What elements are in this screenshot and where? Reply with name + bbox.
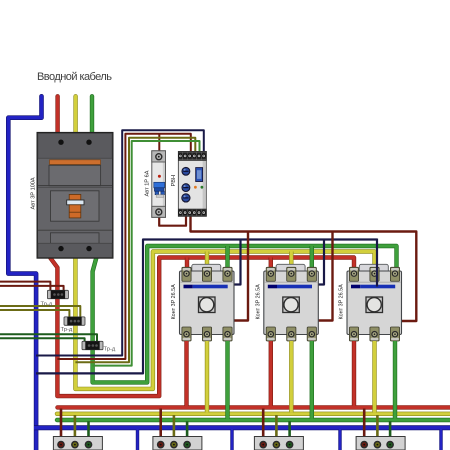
wire N blue drop to outlet row	[136, 430, 139, 450]
svg-text:РВН: РВН	[171, 175, 177, 187]
svg-text:Авт 1Р 6А: Авт 1Р 6А	[144, 170, 150, 196]
svg-text:Тр-д: Тр-д	[61, 327, 73, 333]
wire K1 outputs red/yellow/green to buses	[184, 341, 188, 406]
relay U1 РВН (voltage monitor)	[178, 152, 206, 217]
wire navy neutral bus over contactors	[36, 240, 377, 374]
wire CT2 secondary pair (olive) from left edge	[0, 306, 80, 317]
wire navy drop to K2 coil A2	[318, 240, 324, 285]
wire L2 yellow stub to K2 terminal 2	[289, 252, 293, 274]
wire L2 yellow incoming column through QF1 and CT2	[73, 96, 77, 133]
svg-text:Конт 3Р 26.5А: Конт 3Р 26.5А	[171, 284, 177, 320]
wire L1 red incoming column through QF1 and CT1	[55, 96, 59, 133]
contactor K2 Конт 3Р 26.5А	[264, 264, 319, 341]
svg-text:Конт 3Р 26.5А: Конт 3Р 26.5А	[255, 284, 261, 320]
wire feeders to outlet device 2	[159, 409, 162, 442]
wire feeders to outlet device 3	[262, 409, 265, 442]
current transformer Тр-д 1	[47, 290, 68, 298]
wire navy drop to K1 coil A2	[234, 240, 241, 285]
svg-text:Тр-д: Тр-д	[104, 347, 116, 353]
svg-text:Тр-д: Тр-д	[41, 302, 53, 308]
wire N blue incoming: cap top, down, west, down left edge, east, down thick to bottom	[8, 96, 41, 450]
circuit breaker SF1 Авт 1Р 6А	[152, 151, 166, 218]
contactor K3 Конт 3Р 26.5А	[347, 264, 402, 341]
wire L3 green stub to K2 terminal 3	[310, 246, 314, 274]
wire CT1 secondary pair (dark red) from left edge	[0, 282, 50, 291]
svg-text:Авт 3Р 100А: Авт 3Р 100А	[31, 177, 37, 209]
wire K3 outputs red/yellow/green to buses	[352, 341, 356, 406]
wire dark-red branch to SF1 top terminal	[158, 134, 160, 152]
wire K2 outputs red/yellow/green to buses	[269, 341, 273, 406]
wire L3 green stub to K1 terminal 3	[225, 246, 229, 274]
current transformer Тр-д 2	[64, 317, 85, 325]
wire feeders to outlet device 4	[363, 409, 366, 442]
terminal block device 2	[153, 437, 202, 450]
terminal block device 3	[254, 437, 303, 450]
wire dark-red link SF1 bottom to relay bottom terminal 2	[159, 217, 186, 226]
wire L1 red stub to K2 terminal 1	[269, 258, 273, 274]
wire N blue drop to outlet row	[338, 430, 341, 450]
terminal block device 1	[53, 437, 102, 450]
wire CT3 secondary pair (dark green) from left edge	[0, 334, 97, 341]
wire L2 yellow stub to K1 terminal 2	[205, 252, 209, 274]
terminal block device 4	[356, 437, 405, 450]
bus L3 green distribution	[57, 418, 450, 422]
wire dark-red drop to K2 coil A1	[318, 232, 332, 321]
wire L3 green incoming column through QF1 and CT3	[90, 96, 94, 133]
svg-text:Конт 3Р 26.5А: Конт 3Р 26.5А	[339, 284, 345, 320]
bus L1 red distribution	[58, 405, 450, 409]
wire feeders to outlet device 1	[60, 409, 63, 442]
wire dark-red phase A sense: red column to relay terminal 3	[57, 134, 190, 359]
bus L2 yellow distribution	[57, 412, 450, 416]
wire green phase C sense: green column to relay terminal 5	[93, 141, 200, 366]
wire navy neutral sense: blue vertical to relay terminal 6	[36, 130, 204, 355]
wire N blue drop to outlet row	[230, 430, 233, 450]
current transformer Тр-д 3	[82, 341, 103, 349]
contactor K1 Конт 3Р 26.5А	[180, 264, 235, 341]
wire L1 red stub to K1 terminal 1	[185, 258, 189, 274]
svg-text:Вводной кабель: Вводной кабель	[37, 71, 112, 83]
circuit breaker QF1 Авт 3Р 100А	[37, 133, 113, 258]
wire N blue drop to outlet row	[439, 430, 442, 450]
wire navy drop to K3 coil (crosses contactor top)	[376, 239, 378, 287]
wire olive phase B sense: yellow column to relay terminal 4	[75, 138, 195, 362]
wire dark-red drop to K1 coil A1	[234, 232, 248, 321]
bus N blue distribution	[34, 425, 450, 430]
wire dark-red coil feed from relay bottom terminal 3 to contactor coils	[191, 217, 417, 322]
